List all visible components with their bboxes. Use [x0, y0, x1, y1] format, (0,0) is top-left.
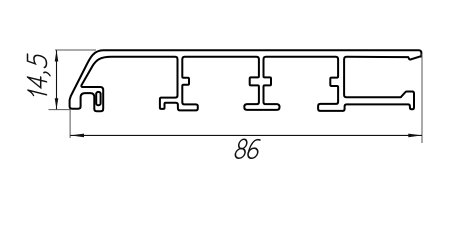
dimension line 14,5 (vertical) [56, 50, 58, 109]
dimension text "14,5" (rotated 90 deg) [28, 53, 51, 99]
arrowhead down (14,5 bottom) [55, 98, 59, 109]
screw slot in left-end foot [96, 92, 100, 105]
arrowhead right (86) [408, 134, 422, 138]
extension line top-left (for 14,5) [55, 49, 96, 51]
profile outline: aluminum extrusion cross-section (top wall, left A-leg with feet, three ribs with tabs and feet, right C-groove with barbed tip and lipped bottom arm) [70, 50, 422, 111]
dimension line 86 (horizontal) [70, 134, 422, 136]
arrowhead left (86) [70, 134, 84, 138]
arrowhead up (14,5 top) [55, 50, 59, 61]
extension line left (for 86) [69, 110, 71, 139]
extension line right (for 86) [421, 54, 423, 144]
dimension text "86" [234, 139, 261, 158]
extension line bottom-left (for 14,5) [49, 109, 71, 111]
